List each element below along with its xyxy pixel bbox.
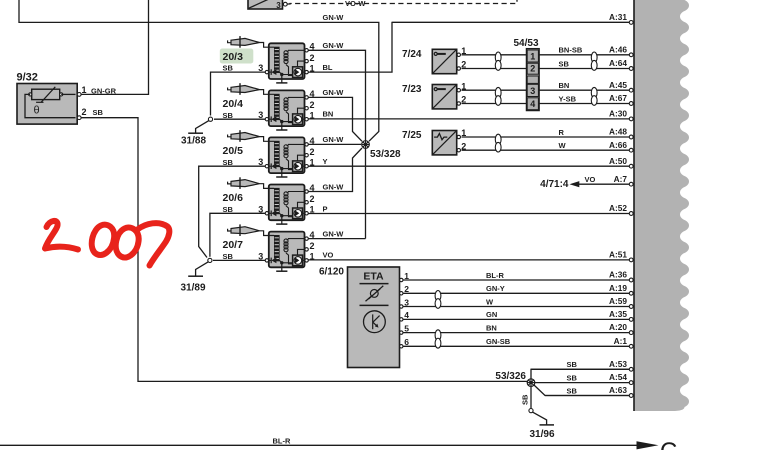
wire row A:20 bbox=[404, 332, 630, 334]
throttle unit ETA 6/120 bbox=[348, 267, 400, 368]
svg-text:W: W bbox=[559, 141, 567, 150]
wire row A:46 bbox=[462, 54, 630, 56]
wire row A:31 bbox=[392, 21, 629, 23]
svg-text:1: 1 bbox=[310, 205, 315, 215]
svg-text:2: 2 bbox=[310, 100, 315, 110]
ignition coil 20/7 bbox=[269, 232, 305, 268]
svg-text:1: 1 bbox=[461, 128, 466, 138]
wire row A:19 bbox=[404, 292, 630, 294]
svg-text:A:64: A:64 bbox=[609, 58, 627, 68]
wire GN-W (20/6 pin4 to splice) bbox=[308, 148, 362, 192]
svg-text:A:1: A:1 bbox=[614, 336, 628, 346]
ground node 31/89 bbox=[208, 258, 212, 262]
wire row A:59 bbox=[404, 306, 630, 308]
wire row A:1 bbox=[404, 345, 630, 347]
svg-text:P: P bbox=[323, 204, 328, 213]
svg-text:53/328: 53/328 bbox=[370, 149, 401, 160]
svg-text:20/4: 20/4 bbox=[223, 98, 244, 110]
svg-text:GN-W: GN-W bbox=[323, 13, 345, 22]
svg-text:A:67: A:67 bbox=[609, 93, 627, 103]
svg-text:1: 1 bbox=[530, 51, 535, 61]
wire row A:36 bbox=[404, 279, 630, 281]
svg-text:SB: SB bbox=[521, 394, 530, 405]
svg-text:A:48: A:48 bbox=[609, 127, 627, 137]
spark plug of 20/5 bbox=[231, 133, 260, 140]
svg-text:1: 1 bbox=[310, 157, 315, 167]
svg-text:A:59: A:59 bbox=[609, 296, 627, 306]
wire GN-W (20/3 pin4 down to splice, through-vertical) bbox=[308, 50, 366, 238]
connector 54/53 bbox=[526, 49, 539, 111]
svg-text:6: 6 bbox=[404, 337, 409, 347]
wire SB (20/3 pin3 to ground node) bbox=[211, 72, 266, 115]
wire GN-GR (9/32 pin1 to top edge) bbox=[81, 0, 149, 94]
svg-text:4/71:4: 4/71:4 bbox=[540, 179, 569, 190]
wire SB (20/7 pin3 to ground node) bbox=[213, 259, 265, 261]
svg-text:1: 1 bbox=[404, 271, 409, 281]
ground node 31/88 bbox=[208, 117, 212, 121]
svg-text:7/24: 7/24 bbox=[402, 49, 422, 60]
svg-text:54/53: 54/53 bbox=[514, 38, 539, 49]
ignition coil 20/4 bbox=[269, 90, 305, 126]
wire row A:54 bbox=[535, 382, 629, 384]
wire SB (9/32 pin2 to splice 53/326) bbox=[81, 118, 527, 382]
spark plug of 20/3 bbox=[231, 38, 260, 45]
ground lead 31/88 bbox=[196, 121, 209, 134]
svg-text:1: 1 bbox=[461, 46, 466, 56]
sensor 7/25 bbox=[432, 131, 456, 155]
svg-text:31/89: 31/89 bbox=[181, 283, 206, 294]
off-page arrow C bbox=[637, 441, 659, 449]
svg-text:W: W bbox=[486, 297, 494, 306]
ignition coil 20/6 bbox=[269, 185, 305, 221]
svg-text:SB: SB bbox=[567, 373, 578, 382]
svg-text:53/326: 53/326 bbox=[495, 371, 526, 382]
terminal (31/96 lead) bbox=[529, 409, 533, 413]
svg-text:SB: SB bbox=[223, 252, 234, 261]
wire row A:35 bbox=[404, 318, 630, 320]
svg-text:A:54: A:54 bbox=[609, 372, 627, 382]
svg-text:VO: VO bbox=[585, 175, 596, 184]
green highlight (20/3) bbox=[220, 49, 254, 64]
svg-text:GN-SB: GN-SB bbox=[486, 337, 511, 346]
sensor 7/23 bbox=[432, 85, 456, 109]
spark plug of 20/7 bbox=[231, 227, 260, 234]
svg-text:7/23: 7/23 bbox=[402, 84, 422, 95]
partial component box (top edge, cut off) bbox=[248, 0, 283, 9]
svg-text:1: 1 bbox=[310, 63, 315, 73]
svg-text:A:45: A:45 bbox=[609, 80, 627, 90]
svg-text:1: 1 bbox=[82, 85, 87, 95]
wire SB (20/6 pin3 down to ground node) bbox=[210, 213, 265, 256]
svg-text:A:63: A:63 bbox=[609, 385, 627, 395]
svg-text:SB: SB bbox=[223, 158, 234, 167]
svg-text:BN-SB: BN-SB bbox=[559, 46, 583, 55]
svg-text:R: R bbox=[559, 128, 565, 137]
svg-text:Y-SB: Y-SB bbox=[559, 94, 577, 103]
svg-text:2: 2 bbox=[461, 95, 466, 105]
svg-text:A:50: A:50 bbox=[609, 156, 627, 166]
wire SB (20/4 pin3 to ground node) bbox=[214, 118, 265, 120]
svg-text:20/6: 20/6 bbox=[223, 192, 244, 204]
svg-text:9/32: 9/32 bbox=[17, 72, 38, 84]
svg-text:BN: BN bbox=[559, 81, 570, 90]
svg-text:BN: BN bbox=[323, 110, 334, 119]
svg-text:GN-W: GN-W bbox=[323, 182, 345, 191]
svg-text:1: 1 bbox=[310, 110, 315, 120]
dashed wire VO-W bbox=[287, 0, 517, 4]
svg-text:BL: BL bbox=[323, 63, 333, 72]
wire row A:67 bbox=[462, 103, 630, 105]
svg-text:2: 2 bbox=[310, 147, 315, 157]
spark plug of 20/4 bbox=[231, 86, 260, 93]
svg-text:BL-R: BL-R bbox=[273, 437, 291, 446]
wire SB (splice to A:63) bbox=[534, 385, 629, 396]
svg-text:2: 2 bbox=[310, 53, 315, 63]
svg-text:SB: SB bbox=[93, 108, 104, 117]
svg-text:A:31: A:31 bbox=[609, 12, 627, 22]
svg-text:GN-W: GN-W bbox=[323, 229, 345, 238]
svg-text:Y: Y bbox=[323, 157, 328, 166]
off-page arrow 4/71:4 (VO to A:7) bbox=[570, 181, 580, 187]
wire row A:48 bbox=[462, 136, 630, 138]
svg-text:20/5: 20/5 bbox=[223, 145, 244, 157]
svg-text:SB: SB bbox=[223, 111, 234, 120]
ground lead 31/89 bbox=[196, 262, 209, 276]
svg-text:GN-W: GN-W bbox=[323, 88, 345, 97]
svg-text:1: 1 bbox=[461, 81, 466, 91]
svg-text:4: 4 bbox=[404, 310, 409, 320]
svg-text:VO-W: VO-W bbox=[345, 0, 366, 8]
svg-text:2: 2 bbox=[461, 141, 466, 151]
wire row A:66 bbox=[462, 149, 630, 151]
wire row A:52 bbox=[308, 213, 629, 215]
svg-text:4: 4 bbox=[530, 99, 535, 109]
twisted pair marker at x=594.2 bbox=[591, 87, 597, 98]
svg-text:SB: SB bbox=[567, 386, 578, 395]
svg-text:2: 2 bbox=[461, 60, 466, 70]
svg-text:3: 3 bbox=[404, 297, 409, 307]
spark plug of 20/6 bbox=[231, 180, 260, 187]
twisted pair marker at x=498.2 bbox=[495, 134, 501, 145]
svg-text:A:51: A:51 bbox=[609, 250, 627, 260]
svg-text:A:35: A:35 bbox=[609, 309, 627, 319]
wire GN-W main feed (from top edge to splice 53/328) bbox=[19, 0, 379, 141]
svg-text:2: 2 bbox=[404, 284, 409, 294]
svg-text:A:30: A:30 bbox=[609, 109, 627, 119]
svg-text:BN: BN bbox=[486, 323, 497, 332]
svg-text:1: 1 bbox=[310, 252, 315, 262]
svg-text:GN-W: GN-W bbox=[323, 41, 345, 50]
wire row A:53 bbox=[531, 368, 629, 370]
svg-text:C: C bbox=[660, 438, 677, 450]
temperature sensor 9/32 (NTC) bbox=[17, 84, 77, 125]
svg-text:6/120: 6/120 bbox=[319, 266, 344, 277]
wire row A:50 bbox=[308, 165, 629, 167]
svg-text:VO: VO bbox=[323, 251, 334, 260]
wire row A:30 bbox=[308, 118, 629, 120]
splice 53/328 bbox=[362, 141, 370, 149]
svg-text:2: 2 bbox=[530, 64, 535, 74]
svg-text:SB: SB bbox=[567, 360, 578, 369]
twisted pair marker at x=594.2 bbox=[591, 52, 597, 63]
svg-text:A:36: A:36 bbox=[609, 270, 627, 280]
wire row A:64 bbox=[462, 68, 630, 70]
svg-text:31/96: 31/96 bbox=[530, 429, 555, 440]
wire row A:51 bbox=[308, 259, 629, 261]
svg-text:SB: SB bbox=[223, 64, 234, 73]
svg-text:SB: SB bbox=[559, 59, 570, 68]
twisted pair marker at x=438 bbox=[435, 291, 441, 302]
wire SB (20/5 pin3 down to ground node) bbox=[199, 166, 266, 257]
svg-text:3: 3 bbox=[276, 1, 281, 10]
svg-text:A:7: A:7 bbox=[614, 174, 628, 184]
svg-text:θ: θ bbox=[33, 105, 39, 117]
wire row A:7 bbox=[579, 183, 630, 185]
svg-text:SB: SB bbox=[223, 205, 234, 214]
svg-text:5: 5 bbox=[404, 323, 409, 333]
svg-text:7/25: 7/25 bbox=[402, 130, 422, 141]
twisted pair marker at x=498.2 bbox=[495, 52, 501, 63]
ignition coil 20/3 bbox=[269, 43, 305, 79]
svg-text:A:46: A:46 bbox=[609, 44, 627, 54]
wire row A:63 bbox=[545, 395, 629, 397]
wire GN-W (20/4 pin4 to splice) bbox=[308, 97, 362, 141]
ground lead 31/96 bbox=[533, 412, 547, 425]
ECU connector housing (gray bar with torn edge) bbox=[634, 0, 689, 411]
wire SB (splice to A:53) bbox=[531, 369, 629, 381]
svg-text:GN-Y: GN-Y bbox=[486, 284, 505, 293]
wire BL-R (bottom, off-page C) bbox=[0, 444, 637, 446]
svg-text:A:53: A:53 bbox=[609, 359, 627, 369]
svg-text:GN-W: GN-W bbox=[323, 135, 345, 144]
wire GN-W (20/7 pin4 to splice vertical) bbox=[308, 238, 366, 240]
svg-text:20/3: 20/3 bbox=[223, 51, 244, 63]
svg-text:2: 2 bbox=[310, 241, 315, 251]
svg-text:2: 2 bbox=[82, 107, 87, 117]
svg-text:A:52: A:52 bbox=[609, 203, 627, 213]
sensor 7/24 bbox=[432, 49, 456, 73]
wire GN-W (20/5 pin4 to splice) bbox=[308, 143, 361, 145]
svg-text:A:66: A:66 bbox=[609, 140, 627, 150]
svg-text:A:19: A:19 bbox=[609, 283, 627, 293]
wire BL (coil 20/3 pin1 to A:31) bbox=[308, 22, 629, 72]
svg-text:GN: GN bbox=[486, 310, 497, 319]
handwritten red annotation 2007 bbox=[45, 221, 169, 266]
svg-text:ETA: ETA bbox=[363, 271, 384, 283]
splice 53/326 bbox=[527, 379, 535, 387]
svg-text:A:20: A:20 bbox=[609, 322, 627, 332]
twisted pair marker at x=438 bbox=[435, 330, 441, 341]
svg-text:2: 2 bbox=[310, 194, 315, 204]
twisted pair marker at x=498.2 bbox=[495, 87, 501, 98]
svg-text:31/88: 31/88 bbox=[181, 136, 206, 147]
ignition coil 20/5 bbox=[269, 137, 305, 173]
wire SB (splice down to ground 31/96) bbox=[530, 387, 532, 409]
svg-text:3: 3 bbox=[530, 86, 535, 96]
svg-text:BL-R: BL-R bbox=[486, 271, 504, 280]
svg-text:20/7: 20/7 bbox=[223, 239, 244, 251]
wire row A:45 bbox=[462, 89, 630, 91]
